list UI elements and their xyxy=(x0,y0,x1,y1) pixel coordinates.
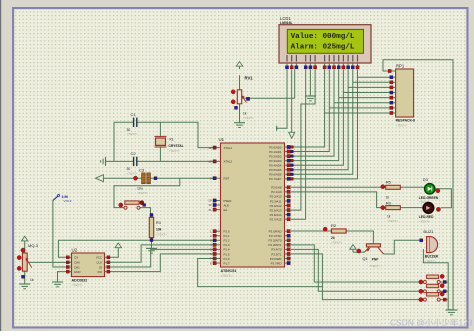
state dots button K1 xyxy=(419,280,423,284)
state dots button K3 xyxy=(419,298,423,302)
svg-text:RESPACK-8: RESPACK-8 xyxy=(396,119,415,123)
svg-text:RST: RST xyxy=(224,177,230,181)
wire LCD D4 to U1 P0.4 xyxy=(291,69,343,165)
svg-text:P1.3: P1.3 xyxy=(224,243,230,247)
pin D5 of LCD1 xyxy=(348,55,349,62)
wire P1.6 bottom route xyxy=(198,259,323,287)
state dot R3 left xyxy=(381,206,385,210)
state square buzzer top xyxy=(420,239,423,242)
pin P1.2 (3) of U1 xyxy=(215,239,221,241)
svg-text:R2: R2 xyxy=(331,223,337,228)
pin P0.5/AD5 (34) of U1 xyxy=(285,169,291,171)
pin P2.6/A14 (27) of U1 xyxy=(285,214,291,216)
svg-text:AT89C51: AT89C51 xyxy=(221,269,237,273)
svg-text:2k: 2k xyxy=(331,236,335,240)
wire P1.5 to U2 DO xyxy=(111,254,215,272)
pin EA (31) of U1 xyxy=(215,209,221,211)
state dot LED-RED cathode xyxy=(436,207,440,211)
wire C1/C2 left join vertical xyxy=(113,122,115,161)
pin 5 of RP1 xyxy=(390,92,396,94)
svg-text:P3.5/T1: P3.5/T1 xyxy=(271,252,282,256)
pin D4 of LCD1 xyxy=(343,55,344,62)
pin P2.2/A10 (23) of U1 xyxy=(285,195,291,197)
pin P0.6/AD6 (33) of U1 xyxy=(285,173,291,175)
pin VEE of LCD1 xyxy=(296,55,297,62)
svg-text:P3.1/TXD: P3.1/TXD xyxy=(269,234,282,238)
voltage probe on CH1 net xyxy=(53,196,58,201)
svg-text:PSEN: PSEN xyxy=(224,199,232,203)
power arrow (RV1) xyxy=(236,62,243,67)
svg-text:P3.7/RD: P3.7/RD xyxy=(271,261,282,265)
wire crystal X1 top lead xyxy=(159,122,161,136)
wire LCD D3 to U1 P0.3 xyxy=(291,69,339,160)
wire U2 GND to ground xyxy=(58,272,67,282)
wire P1.4 to U2 DI xyxy=(111,249,215,267)
wire buzzer bottom to right bus xyxy=(423,249,453,310)
ground (right bus) xyxy=(446,309,458,311)
state dot Q1 emitter xyxy=(357,249,361,253)
svg-text:CH0: CH0 xyxy=(74,261,80,265)
svg-text:<TEXT>: <TEXT> xyxy=(127,132,138,136)
wire D2 to RP1 pin 7 xyxy=(334,102,390,104)
wire R2 to Q1 base xyxy=(346,231,374,244)
svg-text:P1.1: P1.1 xyxy=(224,234,230,238)
svg-text:<TEXT>: <TEXT> xyxy=(396,123,407,127)
pin P3.0/RXD (10) of U1 xyxy=(285,230,291,232)
svg-text:<TEXT>: <TEXT> xyxy=(243,116,254,120)
pin 2 of RP1 xyxy=(390,76,396,78)
wire MQ-3 top lead xyxy=(24,243,26,253)
pin P2.3/A11 (24) of U1 xyxy=(285,200,291,202)
wire U1 P2.1 to R3 xyxy=(291,192,386,208)
wire LCD VSS column to stub end xyxy=(277,69,287,128)
wire LCD D1 to U1 P0.1 xyxy=(291,69,329,151)
svg-text:P3.3/INT1: P3.3/INT1 xyxy=(268,243,281,247)
svg-text:P0.4/AD4: P0.4/AD4 xyxy=(269,164,282,168)
pin P0.7/AD7 (32) of U1 xyxy=(285,178,291,180)
pin P3.7/RD (17) of U1 xyxy=(285,262,291,264)
svg-text:CSDN @小小少年123: CSDN @小小少年123 xyxy=(390,317,473,327)
capacitor C1 xyxy=(133,118,135,127)
svg-text:BUZZER: BUZZER xyxy=(425,254,439,258)
wire LCD D7 to U1 P0.7 xyxy=(291,69,358,178)
svg-text:<TEXT>: <TEXT> xyxy=(137,191,148,195)
svg-text:C2: C2 xyxy=(131,151,137,156)
power terminal down arrow (LCD VDD) xyxy=(289,132,295,138)
wire U1 P3.5 to button K3 xyxy=(291,254,423,300)
svg-text:P0.5/AD5: P0.5/AD5 xyxy=(269,168,282,172)
pin P1.1 (2) of U1 xyxy=(215,235,221,237)
op chip U1 AT89C51 body xyxy=(221,143,285,267)
ground (RV1) xyxy=(234,122,245,124)
wire D5 to RP1 pin 4 xyxy=(348,86,390,88)
wire LCD VDD column to power-down arrow xyxy=(291,69,293,132)
resistor R1 xyxy=(149,217,153,237)
svg-text:P1.7: P1.7 xyxy=(224,261,230,265)
crystal X1 xyxy=(156,138,166,145)
svg-text:CH1: CH1 xyxy=(74,265,80,269)
wire D1 to RP1 pin 8 xyxy=(329,107,389,109)
pin CH0 (2) of U2 xyxy=(66,261,72,263)
pin P2.1/A9 (22) of U1 xyxy=(285,191,291,193)
svg-text:<TEXT>: <TEXT> xyxy=(156,232,167,236)
pin P1.4 (5) of U1 xyxy=(215,248,221,250)
wire MQ-3 output to U2 CH0 xyxy=(29,261,67,263)
wire LCD D2 to U1 P0.2 xyxy=(291,69,334,156)
pin D3 of LCD1 xyxy=(338,55,339,62)
wire crystal X1 bottom lead xyxy=(159,147,161,162)
pin P0.0/AD0 (39) of U1 xyxy=(285,146,291,148)
svg-text:RV1: RV1 xyxy=(245,75,254,80)
pin P1.5 (6) of U1 xyxy=(215,253,221,255)
pin D2 of LCD1 xyxy=(333,55,334,62)
pin P2.5/A13 (26) of U1 xyxy=(285,209,291,211)
pin ALE (30) of U1 xyxy=(215,204,221,206)
svg-text:P2.3/A11: P2.3/A11 xyxy=(270,199,282,203)
svg-text:R1: R1 xyxy=(156,220,162,225)
wire D7 to RP1 pin 2 xyxy=(358,76,390,78)
pin RST (9) of U1 xyxy=(215,177,221,179)
svg-text:P0.2/AD2: P0.2/AD2 xyxy=(269,154,282,158)
button K3 xyxy=(427,293,439,296)
svg-text:19: 19 xyxy=(208,146,212,150)
pin VSS of LCD1 xyxy=(286,55,287,62)
pin P3.5/T1 (15) of U1 xyxy=(285,253,291,255)
pin 1 of RP1 xyxy=(390,70,396,72)
button K1 xyxy=(427,275,439,278)
pin GND (4) of U2 xyxy=(66,271,72,273)
pin P2.4/A12 (25) of U1 xyxy=(285,205,291,207)
state dot R5 left xyxy=(381,185,385,189)
svg-text:P1.0: P1.0 xyxy=(224,230,230,234)
svg-text:XTAL2: XTAL2 xyxy=(224,160,233,164)
pin P0.1/AD1 (38) of U1 xyxy=(285,151,291,153)
wire P1.2 to U2 CS xyxy=(58,240,214,257)
terminal bar (VSS wire end) xyxy=(276,126,278,131)
pin 9 of RP1 xyxy=(390,112,396,114)
svg-text:<TEXT>: <TEXT> xyxy=(419,219,430,223)
pin P3.4/T0 (14) of U1 xyxy=(285,248,291,250)
svg-text:GND: GND xyxy=(74,270,80,274)
svg-text:RP1: RP1 xyxy=(396,64,405,69)
transistor Q1 PNP xyxy=(366,244,380,247)
pin 4 of RP1 xyxy=(390,86,396,88)
svg-text:P0.7/AD7: P0.7/AD7 xyxy=(269,177,282,181)
pin 6 of RP1 xyxy=(390,97,396,99)
svg-text:<TEXT>: <TEXT> xyxy=(169,149,180,153)
wire LCD VEE column xyxy=(294,69,296,98)
svg-text:XTAL1: XTAL1 xyxy=(224,146,233,150)
pin E of LCD1 xyxy=(315,55,316,62)
svg-text:D3: D3 xyxy=(423,177,429,182)
pin 8 of RP1 xyxy=(390,107,396,109)
svg-text:<TEXT>: <TEXT> xyxy=(387,219,398,223)
pin P0.3/AD3 (36) of U1 xyxy=(285,160,291,162)
pin P3.1/TXD (11) of U1 xyxy=(285,235,291,237)
svg-text:<TEXT>: <TEXT> xyxy=(369,264,380,268)
svg-text:P1.2: P1.2 xyxy=(224,239,230,243)
pin DO (5) of U2 xyxy=(105,271,111,273)
svg-text:P2.6/A14: P2.6/A14 xyxy=(270,213,282,217)
pin XTAL1 (19) of U1 xyxy=(215,147,221,149)
svg-text:EA: EA xyxy=(224,208,228,212)
wire RP1 pin1 to right bus xyxy=(383,60,453,310)
pin PSEN (29) of U1 xyxy=(215,200,221,202)
pin P3.3/INT1 (13) of U1 xyxy=(285,244,291,246)
wire voltage probe to U2 CH1 xyxy=(53,201,66,268)
svg-text:X1: X1 xyxy=(169,136,175,141)
pin P1.0 (1) of U1 xyxy=(215,230,221,232)
wire RV1 wiper to LCD VEE xyxy=(244,97,294,99)
pin VDD of LCD1 xyxy=(291,55,292,62)
svg-text:Q1: Q1 xyxy=(362,256,368,261)
wire U1 P3.3 to button K1 xyxy=(291,245,423,282)
state square C3 left xyxy=(133,176,137,180)
pin CS (1) of U2 xyxy=(66,256,72,258)
svg-text:P1.4: P1.4 xyxy=(224,248,230,252)
pin CH1 (3) of U2 xyxy=(66,266,72,268)
wire U1 P2.0 to R5 xyxy=(291,186,386,188)
svg-text:<TEXT>: <TEXT> xyxy=(331,240,342,244)
pin P0.2/AD2 (37) of U1 xyxy=(285,155,291,157)
pin P3.2/INT0 (12) of U1 xyxy=(285,239,291,241)
led LED-RED xyxy=(423,203,434,214)
svg-text:U1: U1 xyxy=(219,137,225,142)
svg-text:18: 18 xyxy=(208,160,212,164)
button K2 xyxy=(427,284,439,287)
svg-text:31: 31 xyxy=(208,208,212,212)
wire U1 P3.0 to R2 xyxy=(291,230,331,232)
potentiometer RV1 xyxy=(237,90,241,104)
capacitor C3 electrolytic xyxy=(142,173,146,184)
adc U2 ADC0832 body xyxy=(72,253,105,277)
svg-text:10u: 10u xyxy=(137,186,143,190)
ground (LCD RW) xyxy=(305,95,316,97)
wire LCD RW column to ground xyxy=(309,69,311,95)
wire LCD D0 to U1 P0.0 xyxy=(291,69,325,147)
state dots button K2 xyxy=(419,289,423,293)
svg-text:LM016L: LM016L xyxy=(280,21,293,25)
svg-text:P0.3/AD3: P0.3/AD3 xyxy=(269,159,282,163)
pin VCC (8) of U2 xyxy=(105,256,111,258)
svg-text:V=0.2: V=0.2 xyxy=(64,199,72,203)
svg-text:P3.2/INT0: P3.2/INT0 xyxy=(268,239,281,243)
resistor pack RP1 RESPACK-8 xyxy=(396,69,414,117)
wire reset button to R1 xyxy=(140,208,150,218)
svg-text:P2.0/A8: P2.0/A8 xyxy=(271,186,282,190)
power terminal (left arrow) at reset xyxy=(96,175,104,182)
wire LCD E column to U1 P2.7 xyxy=(291,69,315,219)
svg-text:30: 30 xyxy=(208,203,212,207)
power arrow (Q1 emitter) xyxy=(350,245,357,250)
wire P1.3 to U2 CLK xyxy=(111,245,215,262)
ground (U2) xyxy=(52,281,63,283)
svg-text:R3: R3 xyxy=(386,200,392,205)
pin D6 of LCD1 xyxy=(352,55,353,62)
wire XTAL2 net: C2 to U1 XTAL2 xyxy=(114,160,133,162)
svg-text:MQ-3: MQ-3 xyxy=(28,243,39,248)
wire LCD D5 to U1 P0.5 xyxy=(291,69,348,169)
state square R1 bottom xyxy=(150,239,153,242)
svg-text:P1.5: P1.5 xyxy=(224,252,230,256)
svg-text:29: 29 xyxy=(208,199,212,203)
ground (crystal caps) xyxy=(105,157,107,166)
pin DI (6) of U2 xyxy=(105,266,111,268)
wire D0 to RP1 pin 9 xyxy=(325,112,390,114)
ground (MQ-3) xyxy=(19,283,30,285)
svg-text:<TEXT>: <TEXT> xyxy=(221,274,233,278)
wire Q1 collector to buzzer xyxy=(384,240,424,254)
svg-text:P2.5/A13: P2.5/A13 xyxy=(270,208,282,212)
resistor R2 xyxy=(332,229,347,233)
svg-text:10k: 10k xyxy=(156,228,162,232)
pin RS of LCD1 xyxy=(305,55,306,62)
ground (R1) xyxy=(146,247,157,249)
window left edge xyxy=(0,0,1,331)
led D3 LED-GREEN xyxy=(425,184,435,194)
wire LCD RS column to U1 P2.5 xyxy=(291,69,306,210)
wire RST net: power terminal to C3 to U1 RST xyxy=(104,177,142,179)
state dot R2 left xyxy=(323,227,327,231)
svg-text:C1: C1 xyxy=(131,112,137,117)
wire R5 to LED D3 xyxy=(400,186,424,188)
svg-text:CRYSTAL: CRYSTAL xyxy=(169,144,184,148)
svg-text:ALE: ALE xyxy=(224,203,230,207)
svg-text:P0.1/AD1: P0.1/AD1 xyxy=(269,150,282,154)
pin P1.7 (8) of U1 xyxy=(215,262,221,264)
svg-text:P3.6/WR: P3.6/WR xyxy=(270,257,282,261)
wire D4 to RP1 pin 5 xyxy=(343,92,389,94)
wire D3 cathode to common node xyxy=(435,189,452,208)
svg-text:VCC: VCC xyxy=(96,256,102,260)
state square R1 top xyxy=(150,214,153,217)
wire R3 to LED-RED xyxy=(400,207,423,209)
wire U1 P3.4 to button K2 xyxy=(291,249,423,291)
wire R1 bottom to ground xyxy=(151,238,153,249)
svg-text:DI: DI xyxy=(99,265,102,269)
power arrow (MQ-3) xyxy=(21,236,28,241)
wire D6 to RP1 pin 3 xyxy=(353,81,390,83)
wire LCD D6 to U1 P0.6 xyxy=(291,69,353,174)
svg-text:1k: 1k xyxy=(30,278,34,282)
pin D0 of LCD1 xyxy=(324,55,325,62)
pin P1.3 (4) of U1 xyxy=(215,244,221,246)
state dot D3 cathode xyxy=(436,189,440,193)
pin P0.4/AD4 (35) of U1 xyxy=(285,164,291,166)
svg-text:Alarm: 025mg/L: Alarm: 025mg/L xyxy=(291,44,355,52)
state square C3/RST junction xyxy=(154,177,157,180)
state dots MQ-3 xyxy=(17,256,21,260)
gas sensor MQ-3 xyxy=(22,253,27,271)
wire button K3 to right bus xyxy=(440,299,448,301)
svg-text:P2.1/A9: P2.1/A9 xyxy=(271,190,282,194)
wire to crystal ground xyxy=(106,160,115,162)
pin D1 of LCD1 xyxy=(329,55,330,62)
svg-text:<TEXT>: <TEXT> xyxy=(127,171,138,175)
pin P3.6/WR (16) of U1 xyxy=(285,258,291,260)
pin P2.0/A8 (21) of U1 xyxy=(285,186,291,188)
resistor R3 xyxy=(386,206,401,210)
svg-text:CLK: CLK xyxy=(96,261,102,265)
wire U2 VCC to power arrow xyxy=(111,250,119,257)
state dots RV1 xyxy=(231,90,235,94)
wire button K2 to right bus xyxy=(440,290,448,292)
pin P2.7/A15 (28) of U1 xyxy=(285,218,291,220)
buzzer BUZ1 xyxy=(427,237,430,253)
pin P1.6 (7) of U1 xyxy=(215,258,221,260)
svg-text:BUZ1: BUZ1 xyxy=(423,229,434,234)
pin XTAL2 (18) of U1 xyxy=(215,160,221,162)
svg-text:P2.4/A12: P2.4/A12 xyxy=(270,204,282,208)
svg-text:C3: C3 xyxy=(139,167,145,172)
state dots reset button xyxy=(119,203,123,207)
LCD screen xyxy=(287,29,363,53)
svg-text:1k: 1k xyxy=(386,195,390,199)
wire RV1 top lead xyxy=(239,75,241,90)
svg-text:P1.6: P1.6 xyxy=(224,257,230,261)
svg-text:P3.4/T0: P3.4/T0 xyxy=(271,248,282,252)
capacitor C2 xyxy=(133,157,135,166)
pin D7 of LCD1 xyxy=(357,55,358,62)
svg-text:P0.6/AD6: P0.6/AD6 xyxy=(269,173,282,177)
svg-text:<TEXT>: <TEXT> xyxy=(425,259,436,263)
reset button xyxy=(125,201,139,204)
pin 3 of RP1 xyxy=(390,81,396,83)
pin 7 of RP1 xyxy=(390,102,396,104)
svg-text:P2.2/A10: P2.2/A10 xyxy=(270,195,282,199)
svg-text:P3.0/RXD: P3.0/RXD xyxy=(269,230,282,234)
svg-text:P0.0/AD0: P0.0/AD0 xyxy=(269,145,282,149)
svg-text:P2.7/A15: P2.7/A15 xyxy=(270,217,282,221)
wire XTAL1 net: C1 to crystal to U1 XTAL1 xyxy=(114,121,133,123)
svg-text:DO: DO xyxy=(98,270,103,274)
svg-text:ADC0832: ADC0832 xyxy=(72,278,88,282)
wire RV1 bottom to ground xyxy=(239,104,241,123)
resistor R5 xyxy=(386,185,401,189)
svg-text:Value: 000mg/L: Value: 000mg/L xyxy=(291,33,355,41)
power arrow (U2 VCC) xyxy=(115,243,122,248)
wire button K1 to right bus xyxy=(440,281,448,283)
wire MQ-3 bottom lead xyxy=(24,271,26,284)
svg-text:R5: R5 xyxy=(386,179,392,184)
svg-text:<TEXT>: <TEXT> xyxy=(72,283,83,287)
svg-text:U2: U2 xyxy=(72,247,78,252)
wire D3 to RP1 pin 6 xyxy=(339,97,390,99)
pin RW of LCD1 xyxy=(310,55,311,62)
pin CLK (7) of U2 xyxy=(105,261,111,263)
LCD1 LM016L display xyxy=(279,25,371,63)
svg-text:PNP: PNP xyxy=(372,258,379,262)
wire reset button branch xyxy=(114,178,180,207)
wire Q1 emitter to power arrow xyxy=(353,251,365,253)
svg-text:CS: CS xyxy=(74,256,78,260)
